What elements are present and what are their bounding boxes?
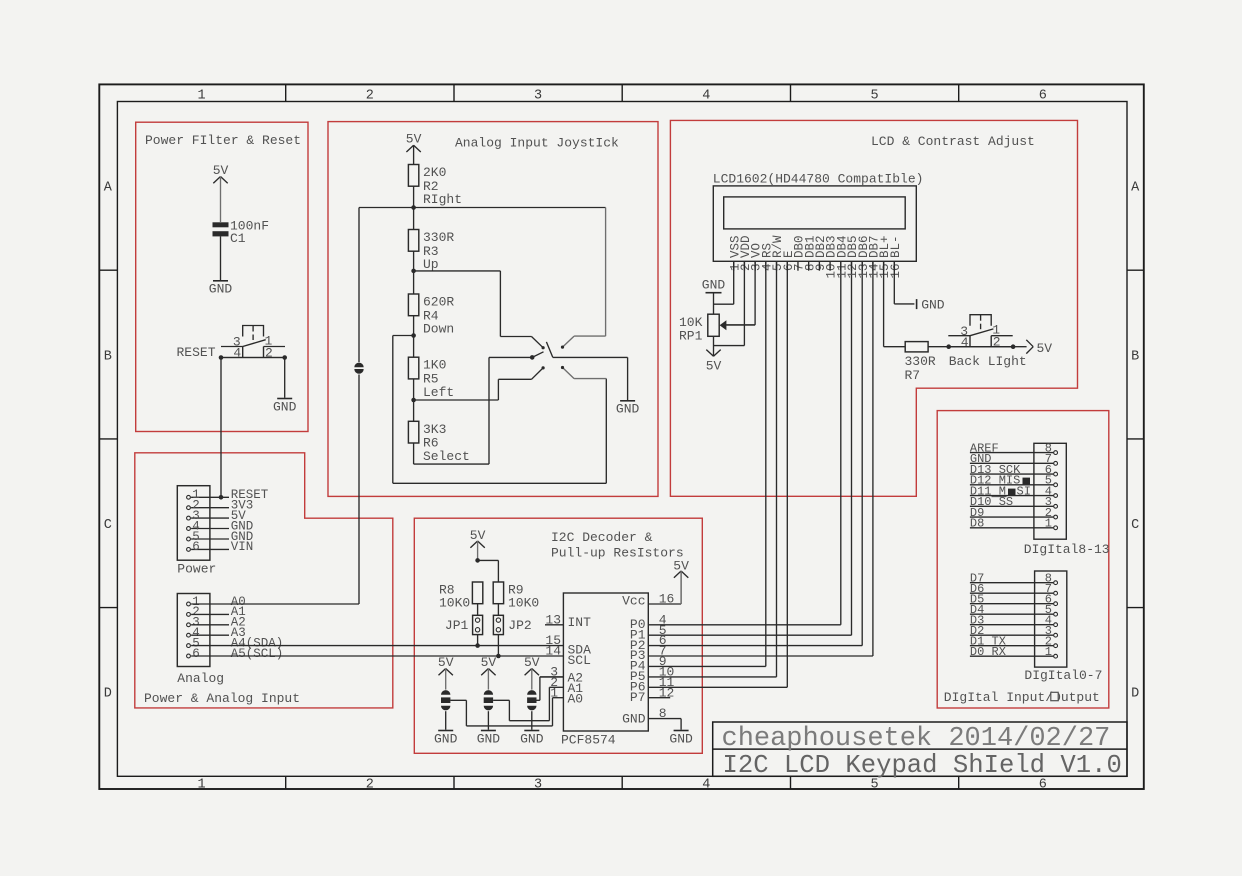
S2 top leads pins 3/1 [221, 346, 243, 348]
svg-text:Analog: Analog [177, 671, 224, 686]
S2 plunger stem (dashed) [252, 326, 254, 332]
connector Analog pin 1 (A0) [187, 602, 191, 606]
junction dot Up [411, 269, 416, 274]
svg-text:D8: D8 [970, 517, 984, 531]
connector Power pin 6 (VIN) [187, 548, 191, 552]
connector Power pin 2 (3V3) [187, 506, 191, 510]
solder jumper SJ1 on A0 rail [354, 363, 363, 368]
junction dot switch right [282, 355, 287, 360]
S2 contact bars [242, 347, 244, 358]
svg-text:RP1: RP1 [679, 329, 703, 344]
solder jumper SJ A0 [441, 690, 450, 695]
svg-text:SI: SI [1017, 484, 1031, 498]
column tick marks bottom [285, 776, 287, 789]
svg-text:5V: 5V [524, 655, 540, 670]
contact dot Up [542, 346, 545, 349]
solder jumper SJ A2 [527, 690, 536, 695]
connector SV Power body [177, 486, 210, 561]
wire R8 to JP1 [477, 604, 479, 616]
wire P6 up to LCD [786, 261, 788, 687]
wire A1 select net [493, 699, 509, 701]
LCD display window [724, 197, 906, 229]
svg-text:Analog Input JoystIck: Analog Input JoystIck [455, 136, 619, 151]
title block box [713, 722, 1127, 776]
wire A1 stub [191, 613, 229, 615]
connector Digital8-13 row 8 (AREF) [970, 452, 1054, 454]
svg-text:3: 3 [534, 88, 542, 103]
connector Digital0-7 row 4 (D3) [970, 624, 1054, 626]
svg-text:5V: 5V [481, 655, 497, 670]
svg-text:SCL: SCL [568, 653, 591, 668]
title block divider [713, 748, 1127, 750]
svg-text:DIgItal Input/Output: DIgItal Input/Output [944, 690, 1100, 705]
svg-text:1: 1 [197, 778, 205, 793]
ground symbol SJ A0 [438, 730, 453, 732]
svg-text:16: 16 [889, 264, 903, 279]
column tick marks top [285, 84, 287, 101]
section box LCD & Contrast Adjust (L-shape) [670, 120, 1077, 496]
wire backlight switch bottom [949, 346, 1013, 348]
svg-text:Up: Up [423, 257, 439, 272]
svg-text:B: B [104, 349, 112, 364]
svg-text:14: 14 [545, 644, 561, 659]
ground symbol PCF8574 [674, 730, 689, 732]
svg-text:RIght: RIght [423, 192, 462, 207]
resistor R6 3K3 [408, 421, 418, 443]
svg-text:DIgItal8-13: DIgItal8-13 [1024, 542, 1110, 557]
junction dot pull-up 5V [475, 558, 480, 563]
connector Analog pin 2 (A1) [187, 613, 191, 617]
svg-text:5V: 5V [1037, 341, 1053, 356]
wire switch common to GND [553, 356, 628, 358]
svg-text:Back LIght: Back LIght [949, 354, 1027, 369]
pin GND 8 [648, 718, 681, 720]
svg-text:LCD & Contrast Adjust: LCD & Contrast Adjust [871, 134, 1035, 149]
wire Left net to switch [414, 399, 499, 401]
connector Analog pin 5 (A4(SDA)) [187, 644, 191, 648]
junction dot backlight left [946, 344, 951, 349]
svg-text:5V: 5V [438, 655, 454, 670]
connector Digital0-7 row 2 (D1 TX) [970, 645, 1054, 647]
connector Analog pin 6 (A5(SCL)) [187, 654, 191, 658]
section box Digital Input/Output [937, 411, 1109, 708]
svg-text:Pull-up ResIstors: Pull-up ResIstors [551, 546, 684, 561]
wire P0 up to LCD [840, 261, 842, 625]
junction dot backlight right [1011, 344, 1016, 349]
wire A0 select net [450, 699, 466, 701]
resistor R2 2K0 [408, 165, 418, 187]
wire R7 to switch [928, 346, 949, 348]
RP1 wiper arrow [720, 320, 727, 330]
junction dot Right [411, 205, 416, 210]
connector SV Analog body [177, 594, 210, 667]
svg-text:1: 1 [550, 685, 558, 700]
pin A0 1 [553, 697, 564, 699]
svg-text:A: A [104, 181, 113, 196]
junction dot switch pole [530, 355, 535, 360]
drawing frame inner border [117, 102, 1127, 777]
svg-text:330R: 330R [423, 230, 454, 245]
connector Digital0-7 row 8 (D7) [970, 582, 1054, 584]
connector Digital8-13 body [1034, 443, 1066, 539]
wire GND to RP1 [713, 293, 715, 315]
wire R9 to JP2 [497, 604, 499, 616]
connector Digital0-7 row 6 (D5) [970, 603, 1054, 605]
connector Digital0-7 body [1035, 571, 1067, 667]
connector Analog pin 3 (A2) [187, 623, 191, 627]
svg-text:16: 16 [659, 592, 675, 607]
svg-text:2: 2 [366, 88, 374, 103]
potentiometer RP1 10K body [708, 314, 719, 336]
svg-text:2K0: 2K0 [423, 165, 446, 180]
wire solder jumper to A0 [358, 375, 360, 605]
svg-text:GND: GND [921, 297, 945, 312]
wire rail down to solder jumper [358, 208, 360, 363]
connector Digital8-13 row 6 (D13 SCK) [970, 473, 1054, 475]
svg-text:PCF8574: PCF8574 [561, 733, 616, 748]
svg-text:JP2: JP2 [508, 618, 531, 633]
connector Digital0-7 row 1 (D0 RX) [970, 655, 1054, 657]
junction dot RESET at Power pin1 [219, 495, 224, 500]
svg-text:A5(SCL): A5(SCL) [231, 647, 284, 661]
ground symbol SJ A2 [524, 730, 539, 732]
jumper JP2 [493, 615, 503, 634]
wire LCD pin3 VO to wiper [754, 261, 756, 325]
wire A2 select net [537, 699, 540, 701]
svg-text:GND: GND [520, 731, 544, 746]
connector Digital8-13 row 2 (D9) [970, 516, 1054, 518]
wire Down net to switch [393, 335, 414, 337]
svg-text:GND: GND [702, 278, 726, 293]
wire Select net to switch pole [414, 463, 489, 465]
drawing frame outer border [99, 84, 1144, 789]
svg-text:R7: R7 [905, 368, 921, 383]
supply 5V arrow right [1013, 346, 1027, 348]
section box I2C Decoder & Pull-up Resistors [414, 518, 702, 753]
jumper JP1 [473, 615, 483, 634]
wire P5 up to LCD [776, 261, 778, 677]
connector Digital0-7 row 5 (D4) [970, 613, 1054, 615]
pin A2 3 [540, 676, 564, 678]
black box glyph in D12 MISO [1023, 478, 1031, 485]
wire RP1 to 5V (down arrow) [713, 336, 715, 356]
ground symbol below C1 [213, 280, 228, 282]
wire LCD pin16 BL- to GND [893, 261, 895, 304]
row tick marks left [99, 269, 117, 271]
resistor R3 330R [408, 230, 418, 252]
wire RESET net horizontal [220, 357, 286, 359]
svg-text:Power & Analog Input: Power & Analog Input [144, 691, 300, 706]
S2 switch blade [243, 340, 266, 347]
svg-text:10K0: 10K0 [508, 595, 539, 610]
wire SJ A1 to ground [487, 711, 489, 730]
resistor R4 620R [408, 294, 418, 316]
contact dot Right [561, 346, 564, 349]
svg-text:4: 4 [702, 778, 710, 793]
S1 bottom through wire [948, 346, 1012, 348]
svg-text:1: 1 [1045, 517, 1052, 531]
svg-text:A: A [1131, 181, 1140, 196]
connector Digital8-13 row 4 (D11 M) [970, 495, 1054, 497]
S2 bottom through wire [221, 357, 285, 359]
wire LCD pin2 VDD to 5V stem [743, 261, 745, 345]
junction dot SDA pull-up [475, 643, 480, 648]
pin Vcc 16 and 5V [648, 603, 681, 605]
svg-text:D: D [1131, 687, 1139, 702]
svg-text:6: 6 [1039, 88, 1047, 103]
wire A3 stub [191, 634, 229, 636]
connector Digital0-7 row 3 (D2) [970, 634, 1054, 636]
S1 actuator bracket [970, 315, 991, 326]
svg-text:5: 5 [870, 88, 878, 103]
connector Digital8-13 row 5 (D12 MIS) [970, 484, 1054, 486]
resistor R7 330R [905, 342, 928, 352]
svg-text:GND: GND [434, 731, 458, 746]
svg-text:cheaphousetek 2014/02/27: cheaphousetek 2014/02/27 [722, 724, 1111, 754]
wire A2 stub [191, 624, 229, 626]
svg-text:DIgItal0-7: DIgItal0-7 [1024, 668, 1102, 683]
wire switch to ground [284, 358, 286, 398]
S2 actuator bracket [243, 326, 264, 337]
svg-text:GND: GND [622, 712, 646, 727]
wire LCD pin15 BL+ to R7 [883, 261, 885, 346]
svg-text:8: 8 [659, 706, 667, 721]
svg-text:GND: GND [669, 731, 693, 746]
wire SJ A0 to ground [445, 711, 447, 730]
svg-text:D: D [104, 687, 112, 702]
svg-text:D0 RX: D0 RX [970, 645, 1006, 659]
svg-text:I2C LCD Keypad ShIeld V1.0: I2C LCD Keypad ShIeld V1.0 [723, 751, 1122, 780]
svg-text:Left: Left [423, 385, 454, 400]
svg-text:JP1: JP1 [445, 618, 469, 633]
black box glyph in D11 MOSI [1008, 489, 1016, 496]
svg-text:5V: 5V [406, 132, 422, 147]
wire LCD pin1 VSS to GND stem [733, 261, 735, 304]
svg-text:4: 4 [702, 88, 710, 103]
svg-text:10K0: 10K0 [439, 595, 470, 610]
underscore in D11_MOSI [992, 496, 1007, 498]
connector Power pin 3 (5V) [187, 516, 191, 520]
connector Digital8-13 row 7 (GND) [970, 462, 1054, 464]
wire SCL net A5 to PCF8574 [191, 655, 563, 657]
svg-text:GND: GND [273, 399, 297, 414]
wire SDA net A4 to PCF8574 [191, 645, 563, 647]
section box Power & Analog Input (L-shape) [135, 453, 393, 708]
S1 contact bars [969, 336, 971, 347]
svg-text:4: 4 [233, 346, 241, 361]
svg-text:INT: INT [568, 615, 592, 630]
svg-text:3: 3 [534, 778, 542, 793]
svg-text:5V: 5V [470, 528, 486, 543]
svg-text:B: B [1131, 349, 1139, 364]
wire P1 up to LCD [851, 261, 853, 635]
solder jumper SJ A1 [484, 690, 493, 695]
wire Right net (gray) to switch [414, 207, 606, 209]
wire Up net to switch [414, 270, 501, 272]
connector Digital8-13 row 1 (D8) [970, 527, 1054, 529]
junction dot Left [411, 398, 416, 403]
svg-text:Down: Down [423, 322, 454, 337]
svg-text:Vcc: Vcc [622, 594, 645, 609]
svg-text:3K3: 3K3 [423, 422, 446, 437]
wire SJ A2 to ground [531, 711, 533, 730]
hollow box glyph in Digital Input/Output label [1051, 692, 1059, 701]
svg-text:GND: GND [616, 402, 640, 417]
contact dot Left [542, 366, 545, 369]
svg-text:BL-: BL- [889, 235, 903, 258]
junction dot Down [411, 333, 416, 338]
svg-text:1: 1 [1045, 645, 1052, 659]
switch actuator blade [546, 342, 552, 358]
svg-text:GND: GND [477, 731, 501, 746]
wire P2 up to LCD [861, 261, 863, 645]
switch pole small blade [532, 352, 543, 358]
wire JP2 to SCL [497, 635, 499, 656]
wire Right net to rail [359, 207, 414, 209]
pin INT 13 [545, 624, 563, 626]
svg-text:2: 2 [366, 778, 374, 793]
svg-text:2: 2 [265, 346, 273, 361]
LCD module body [713, 186, 916, 261]
IC U1 PCF8574 body [563, 593, 648, 731]
svg-text:RESET: RESET [177, 345, 216, 360]
svg-text:A0: A0 [568, 691, 584, 706]
svg-text:330R: 330R [905, 354, 936, 369]
wire P3 up to LCD [872, 261, 874, 656]
S1 plunger stem (dashed) [980, 315, 982, 321]
svg-text:Power FIlter & Reset: Power FIlter & Reset [145, 133, 301, 148]
svg-text:P7: P7 [630, 690, 646, 705]
connector Digital8-13 row 3 (D10 SS) [970, 505, 1054, 507]
svg-text:13: 13 [545, 612, 561, 627]
S1 top leads pins 3/1 [948, 335, 970, 337]
svg-text:620R: 620R [423, 295, 454, 310]
svg-text:2: 2 [993, 335, 1001, 350]
connector Power pin 1 (RESET) [187, 495, 191, 499]
connector Power pin 4 (GND) [187, 527, 191, 531]
wire P4 up to LCD [765, 261, 767, 666]
section box Analog Input Joystick [328, 122, 658, 497]
svg-text:C: C [104, 518, 112, 533]
wire C1 to GND [220, 236, 222, 280]
junction dot SCL pull-up [496, 654, 501, 659]
ground symbol SJ A1 [481, 730, 496, 732]
resistor R9 10K0 [493, 582, 503, 604]
ground symbol rotated (BL-) [916, 299, 918, 309]
contact dot Down [561, 366, 564, 369]
connector Power pin 5 (GND) [187, 537, 191, 541]
svg-text:5V: 5V [213, 163, 229, 178]
svg-text:5V: 5V [706, 359, 722, 374]
section box Power Filter & Reset [136, 122, 308, 431]
svg-text:C: C [1131, 518, 1139, 533]
pin A1 2 [549, 686, 563, 688]
wire 5V branch to R9 [478, 559, 499, 561]
wire JP1 to SDA [477, 635, 479, 646]
svg-text:VIN: VIN [231, 540, 254, 554]
svg-text:1: 1 [197, 88, 205, 103]
svg-text:Select: Select [423, 449, 470, 464]
ground symbol joystick [620, 400, 635, 402]
ground symbol below S2 [277, 398, 292, 400]
svg-text:1K0: 1K0 [423, 358, 446, 373]
capacitor C1 plates [213, 222, 229, 227]
junction dot RESET left [219, 355, 224, 360]
svg-text:Power: Power [177, 562, 216, 577]
svg-text:I2C Decoder &: I2C Decoder & [551, 530, 653, 545]
connector Digital0-7 row 7 (D6) [970, 592, 1054, 594]
connector Analog pin 4 (A3) [187, 633, 191, 637]
wire A0 net to joystick rail [191, 603, 359, 605]
wire RESET net vertical to Power pin1 [220, 358, 222, 498]
svg-text:6: 6 [192, 647, 200, 661]
row tick marks right [1127, 269, 1144, 271]
resistor R8 10K0 [472, 582, 482, 604]
S1 switch blade [970, 329, 993, 336]
svg-text:LCD1602(HD44780 CompatIble): LCD1602(HD44780 CompatIble) [713, 171, 924, 186]
svg-text:4: 4 [961, 335, 969, 350]
resistor R5 1K0 [408, 357, 418, 379]
svg-text:6: 6 [192, 540, 200, 554]
svg-text:GND: GND [209, 282, 233, 297]
svg-text:C1: C1 [230, 231, 246, 246]
